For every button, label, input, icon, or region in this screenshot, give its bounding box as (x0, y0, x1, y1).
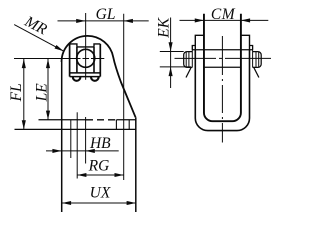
svg-text:RG: RG (88, 157, 110, 174)
GL right arrowhead (124, 19, 133, 23)
left cap inner vertical (185, 52, 187, 68)
svg-text:UX: UX (90, 185, 111, 202)
bolt horizontal centerline / FL LE top extension (14, 57, 104, 59)
EK extension line upper (160, 51, 184, 53)
left cap inner vertical 2 (188, 52, 190, 68)
nut assembly outer left vertical (69, 44, 71, 77)
HB left arrowhead (52, 149, 61, 153)
GL dimension line (58, 20, 149, 22)
left leg / CM left extension / inner U left edge (204, 14, 241, 121)
nut lower hline 1 (70, 72, 101, 74)
nut top stepped edge (70, 44, 101, 47)
bolt vertical centerline / GL left extension (85, 13, 87, 80)
rope top line H1 (192, 49, 252, 51)
UX dimension line (62, 202, 136, 204)
CM dimension line (180, 19, 269, 21)
right wing diagonal (254, 67, 259, 78)
svg-text:MR: MR (21, 13, 50, 39)
base right edge / UX extension line (135, 117, 137, 212)
nut assembly inner right vertical (93, 47, 95, 73)
left washer lip (192, 46, 195, 50)
bracket arch and gusset outline (62, 36, 136, 117)
left cap closing vertical (191, 46, 193, 68)
nut lower hline 2 (70, 76, 101, 78)
CM left arrowhead (195, 18, 204, 22)
base top edge right solid part (116, 119, 135, 121)
hole edge V4 / HB right extension (85, 117, 87, 164)
body left edge / base left edge / UX extension line (61, 62, 63, 212)
svg-text:EK: EK (155, 17, 172, 38)
EK lower arrowhead (pointing up) (169, 67, 173, 76)
FL top arrowhead (22, 59, 26, 68)
outer U strap left edge and bottom (195, 50, 249, 131)
bolt-slot left hole edge V2 (70, 120, 72, 158)
HB right arrowhead (86, 149, 95, 153)
svg-text:CM: CM (211, 6, 236, 23)
RG dimension line (77, 174, 124, 176)
EK upper arrowhead (pointing down) (169, 42, 173, 51)
right washer lip (250, 46, 253, 50)
base bottom edge, extended left as FL extension line (15, 128, 136, 130)
svg-text:HB: HB (89, 135, 111, 152)
left wing diagonal (186, 67, 191, 78)
FL bottom arrowhead (22, 120, 26, 129)
nut assembly outer right vertical (99, 44, 101, 77)
GL right extension / RG right extension long line (123, 14, 125, 180)
CM right arrowhead (241, 18, 250, 22)
RG left arrowhead (77, 173, 86, 177)
UX right arrowhead (127, 201, 136, 205)
LE top arrowhead (46, 59, 50, 68)
right cap inner vertical (258, 52, 260, 68)
EK dimension line (170, 18, 172, 89)
FL dimension line (23, 59, 25, 129)
svg-text:FL: FL (8, 83, 25, 102)
EK extension line lower (160, 66, 191, 68)
MR leader line (14, 25, 63, 51)
UX left arrowhead (62, 201, 71, 205)
rope bottom line H2 between legs (204, 66, 241, 68)
right rope end cap (253, 52, 262, 68)
MR arrowhead (55, 45, 64, 51)
GL left arrowhead (76, 19, 85, 23)
left nut block (195, 35, 204, 49)
LE bottom arrowhead (46, 111, 50, 120)
nut assembly inner left vertical (76, 47, 78, 73)
left foot bowl (73, 77, 81, 81)
bolt hole circle (77, 49, 95, 67)
horizontal rope centerline (175, 57, 272, 59)
left rope end cap (184, 52, 193, 68)
RG right arrowhead (115, 173, 124, 177)
right foot bowl (91, 77, 99, 81)
vertical centerline of clamp (221, 36, 223, 143)
svg-text:GL: GL (96, 6, 116, 23)
right nut block (241, 35, 250, 49)
right cap closing vertical (252, 46, 254, 68)
right cap inner vertical 2 (255, 52, 257, 68)
base top edge hidden (dashed behind gusset) (86, 119, 115, 121)
right base hole edge stub 2 (128, 120, 130, 130)
HB dimension line (46, 150, 119, 152)
bolt-slot hole centerline V3 / RG left extension (76, 112, 78, 178)
base top edge (solid part, also LE bottom extension) (39, 119, 86, 121)
LE dimension line (47, 59, 49, 120)
right base hole edge stub 1 (115, 120, 117, 130)
svg-text:LE: LE (34, 83, 51, 103)
